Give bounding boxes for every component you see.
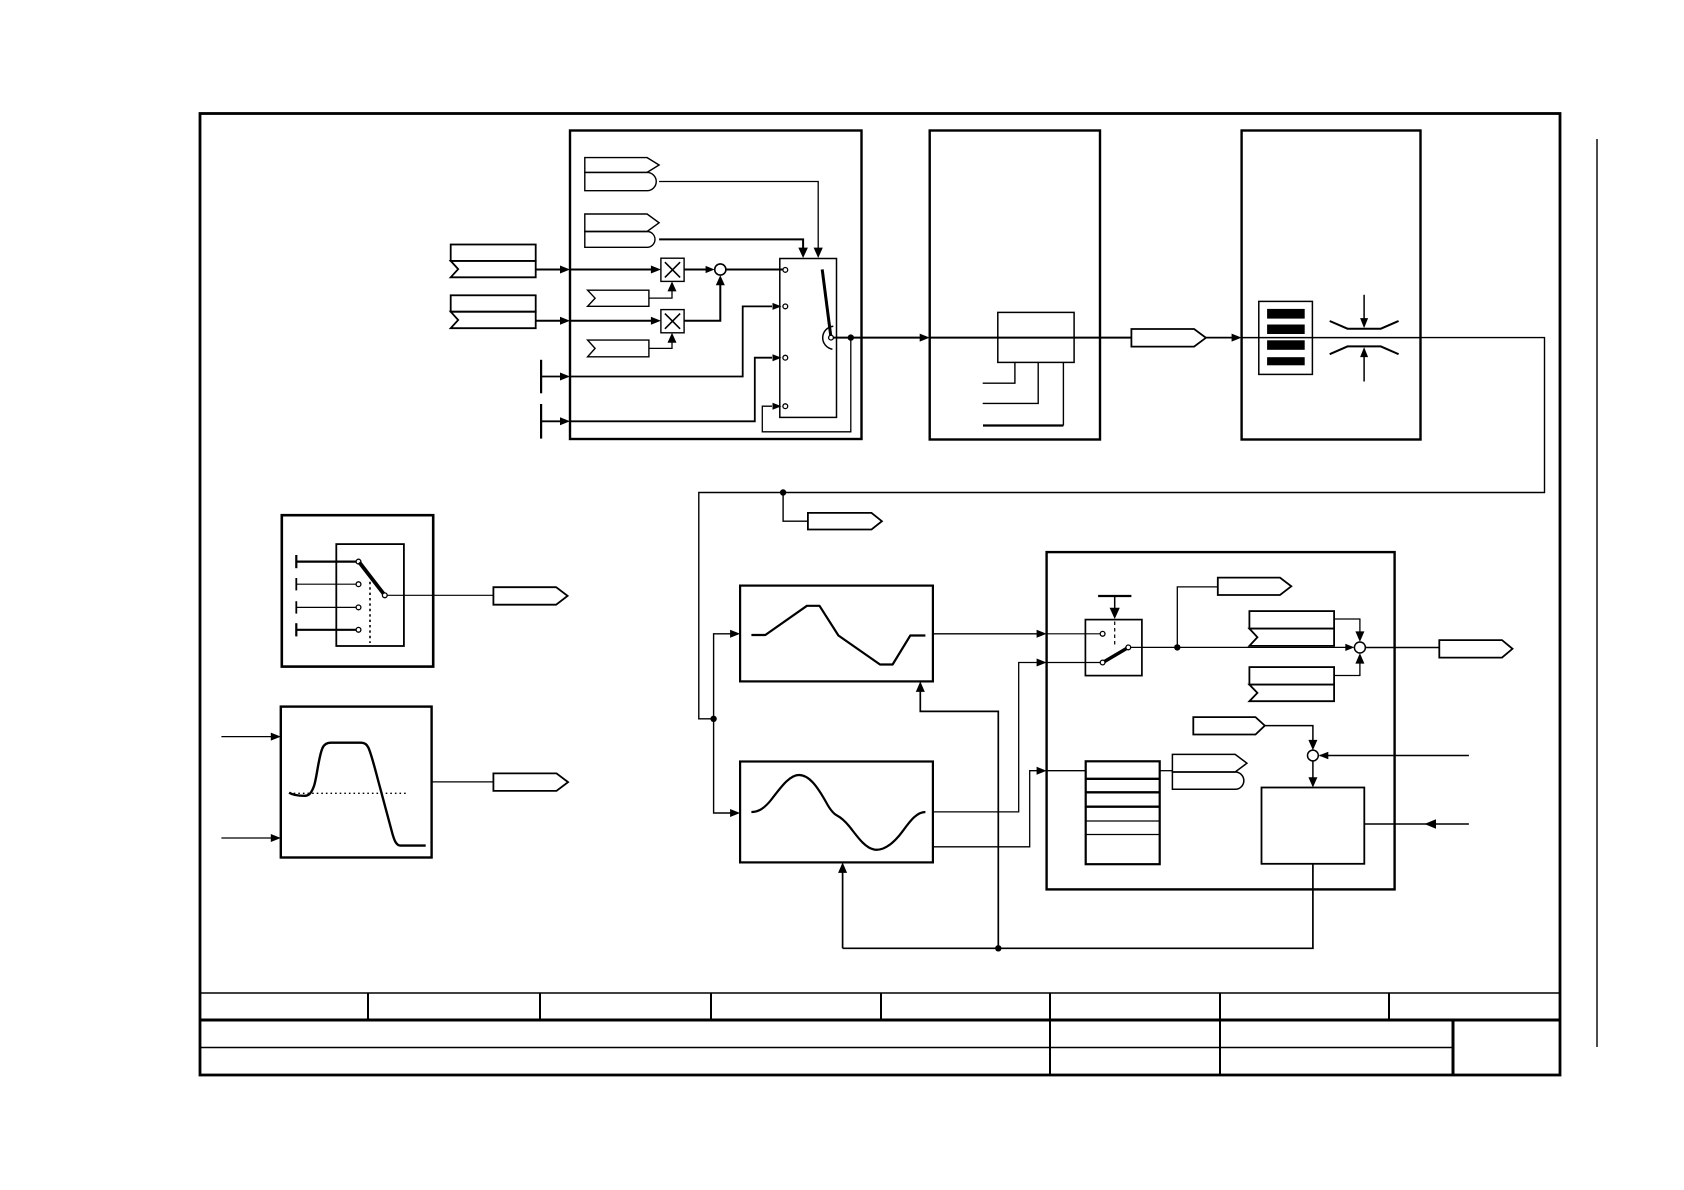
connector pair 2: rounded flag — [585, 232, 655, 248]
arrow up into curve block 1 bottom — [916, 681, 925, 692]
multiplier X1 box — [661, 258, 684, 281]
curve block 2 frame — [740, 762, 933, 863]
arrow up into summing point bottom — [716, 275, 725, 285]
arrow into contact 3 — [773, 354, 782, 361]
scaling parameter flag 2 — [588, 340, 649, 357]
wire: lower flag to summing point 2 — [1265, 726, 1313, 746]
wire: summing point 2 down to correction box — [1312, 761, 1314, 783]
wire: curve block 1 output to block D input 1 — [933, 633, 1038, 635]
arrow into contact 2 — [773, 303, 782, 310]
wire: junction up to status flag — [1177, 587, 1217, 648]
arrow into summing point — [706, 266, 715, 273]
wire: input 2 to contact — [296, 583, 356, 585]
switch contact 1 — [783, 268, 788, 273]
parameter list box — [1086, 761, 1160, 864]
wire: switch D output to summing point 1 — [1130, 646, 1346, 648]
wire: switch output with junction — [833, 337, 921, 339]
wire: branch down to curve block 2 — [714, 719, 732, 813]
arrow up into X1 bottom — [668, 281, 677, 291]
input bar 4 — [295, 623, 297, 636]
title block: header cell divider 7 — [1388, 993, 1390, 1020]
arrow into block F (input 1) — [271, 733, 281, 741]
arrow into X2 — [651, 317, 661, 325]
junction dot on switch output — [848, 334, 854, 340]
multiplier X2 cross — [665, 314, 680, 329]
wire: branch up to curve block 1 — [714, 634, 732, 719]
table bar 1 — [1267, 309, 1305, 319]
arrow into block A edge (input 1) — [560, 266, 570, 274]
arrow into curve block 2 — [730, 809, 740, 817]
wire: lower feedback rising into curve block 1 bottom — [920, 691, 998, 949]
block D frame — [1047, 552, 1395, 889]
stair step line 1 — [983, 362, 1015, 383]
curve block 2 characteristic curve — [751, 775, 925, 850]
limiter lower arrow stem — [1363, 356, 1365, 382]
summing point circle — [715, 264, 726, 275]
arrow down into switch (thin wire) — [814, 248, 823, 258]
junction dot at branch point — [710, 716, 716, 722]
dotted reference line F — [289, 792, 407, 794]
wire: input 3 to switch contact 2 — [570, 306, 772, 376]
block E inner switch box — [336, 544, 404, 646]
wire: input 2 main line into block A — [536, 320, 562, 322]
block E frame — [282, 515, 433, 666]
dotted guide line in switch box — [1114, 622, 1116, 648]
wire: flag 2 to X2 bottom — [649, 341, 672, 348]
wire: parameter box 2 to summing point bottom — [1334, 662, 1360, 676]
wire: flag 1 to X1 bottom — [649, 290, 672, 298]
title block: lower middle row line — [200, 1047, 1453, 1049]
title block: header cell divider 1 — [367, 993, 369, 1020]
wire: input 1 main line into block A — [536, 269, 562, 271]
wire: block C output wrap-around to lower area — [699, 338, 1545, 719]
wire: main line through block B — [930, 337, 1132, 339]
wire: input 4 into block A — [541, 420, 561, 422]
arrow left on correction box input — [1424, 819, 1436, 828]
block B frame — [930, 131, 1100, 440]
arrow into block F (input 2) — [271, 834, 281, 842]
stair step line 2 — [983, 362, 1038, 403]
input parameter box 2: chevron flag part — [451, 312, 536, 329]
connector pair 1: rounded flag — [585, 172, 656, 190]
limiter symbol lower jaw — [1330, 346, 1399, 354]
connector pair 2: pointed flag — [585, 214, 659, 232]
limiter upper arrowhead — [1360, 318, 1368, 328]
wire: hold-value feedback loop — [762, 338, 851, 432]
wire: input 2 from edge to multiplier X2 — [570, 320, 653, 322]
switch common contact — [829, 335, 834, 340]
wire: feedback rising into curve block 2 bottom — [842, 872, 844, 949]
parameter list row line 1 — [1086, 778, 1160, 780]
result connector flag (outside right) — [1439, 640, 1512, 658]
arrow into block B — [920, 334, 930, 342]
wire: parameter box 1 to summing point top — [1334, 619, 1360, 633]
multiplier X1 cross — [665, 262, 680, 277]
arrow down into switch box — [1110, 608, 1120, 619]
forcing T-bar above switch — [1098, 595, 1131, 597]
wire: summing point to switch contact 1 — [726, 269, 783, 271]
parameter list row line 5 — [1086, 834, 1160, 836]
dotted guide line E — [369, 582, 371, 643]
scaling parameter flag 1 — [588, 290, 649, 306]
switch contact 4 — [783, 404, 788, 409]
wire: main line through block C — [1242, 337, 1421, 339]
arrow down into summing point 1 — [1355, 631, 1364, 642]
connector pair 1: pointed flag — [585, 158, 659, 173]
wire: external input into correction box from right — [1364, 823, 1469, 825]
block C frame — [1242, 131, 1421, 440]
offset parameter box 1 chevron flag — [1249, 629, 1334, 646]
title block: header cell divider 2 — [539, 993, 541, 1020]
arrow into X1 — [651, 266, 661, 274]
arrow into block A edge (input 2) — [560, 317, 570, 325]
status connector flag (top) — [1218, 578, 1292, 595]
limiter symbol upper jaw — [1330, 321, 1399, 329]
wire from pair 1 to switch top (thin) — [659, 182, 818, 250]
page-change marker bar (right margin) — [1596, 139, 1598, 1047]
junction dot on switch D output — [1174, 644, 1180, 650]
wire: curve block 2 output 2 to block D input 3 — [933, 771, 1038, 847]
switch D contact 1 — [1100, 631, 1105, 636]
arrow up into curve block 2 bottom — [838, 862, 847, 873]
arrow into block D (input 1) — [1037, 630, 1047, 638]
table bar 2 — [1267, 325, 1305, 335]
arrow into block A edge (input 3) — [560, 373, 570, 381]
title block: header cell divider 3 — [710, 993, 712, 1020]
junction dot on wrap line — [780, 489, 786, 495]
contact E4 — [356, 627, 361, 632]
title block: lower vertical divider 2 — [1219, 1020, 1221, 1075]
selector lever E — [359, 562, 384, 595]
multiplier X2 box — [661, 310, 684, 333]
input bar 2 — [295, 578, 297, 590]
wire: input 3 into block A — [541, 376, 561, 378]
arrow into curve block 1 — [730, 630, 740, 638]
block A frame — [570, 131, 862, 440]
block F output connector flag — [493, 773, 568, 791]
contact E1 — [356, 559, 361, 564]
wire: parameter list to output flag pair — [1160, 770, 1173, 772]
title block: header cell divider 4 — [880, 993, 882, 1020]
wire: correction box bottom feedback to curve blocks — [843, 864, 1313, 949]
arrow into block C — [1232, 334, 1242, 342]
table bar 4 — [1267, 357, 1305, 365]
switch D lever — [1105, 649, 1127, 662]
title block: header cell divider 5 — [1049, 993, 1051, 1020]
offset parameter box 2 — [1249, 667, 1334, 685]
wire: input 3 to contact — [296, 606, 356, 608]
output flag pair: pointed flag — [1172, 754, 1247, 772]
block F frame — [281, 707, 432, 858]
wire: input 4 T-bar terminator — [540, 404, 542, 439]
switch D common contact — [1126, 645, 1131, 650]
title block: lower vertical divider 1 — [1049, 1020, 1051, 1075]
arrow into block D (input 3) — [1037, 767, 1047, 775]
limiter lower arrowhead — [1360, 347, 1368, 357]
wire: input 4 to switch contact 3 — [570, 358, 772, 422]
connector flag under wrap line — [808, 513, 882, 530]
curve block 1 characteristic polyline — [751, 606, 925, 665]
offset parameter box 1 — [1249, 611, 1334, 629]
outer drawing frame — [200, 114, 1560, 1076]
switch contact 3 — [783, 355, 788, 360]
wire: input 1 to contact (thick) — [296, 560, 356, 562]
switch lever — [822, 269, 831, 337]
switch selector box — [780, 259, 837, 418]
stair step line 3 (selected, thick horizontal) — [1062, 362, 1064, 425]
curve block 1 frame — [740, 586, 933, 682]
output flag pair: rounded flag — [1172, 772, 1243, 789]
correction box — [1262, 788, 1365, 864]
stair step line 3 horizontal — [983, 424, 1063, 426]
forcing stem — [1114, 596, 1116, 611]
wire: curve block 2 output 1 to block D input 2 — [933, 663, 1038, 812]
wire: X2 output up to summing point — [684, 285, 720, 321]
input parameter box 1: chevron flag part — [451, 261, 536, 277]
wire: branch down to connector flag — [783, 493, 808, 522]
offset parameter box 2 chevron flag — [1249, 685, 1334, 702]
input parameter box 2 (outside frame, lower) — [451, 295, 536, 311]
speed-limit table box — [1259, 301, 1313, 374]
parameter list row line 4 — [1086, 820, 1160, 822]
wire: input 1 from edge to multiplier X1 — [570, 269, 653, 271]
parameter list row line 3 — [1086, 806, 1160, 808]
arrow down into switch (thick wire) — [798, 248, 808, 258]
wire: flag to block C — [1206, 337, 1234, 339]
arrow into block A edge (input 4) — [560, 417, 570, 425]
switch contact 2 — [783, 304, 788, 309]
wire: block F input 1 — [221, 736, 272, 738]
block B inner function box — [998, 312, 1074, 362]
connector flag between B and C — [1131, 329, 1206, 347]
contact E2 — [356, 582, 361, 587]
block E output connector flag — [493, 587, 567, 605]
lower connector flag in block D — [1193, 717, 1265, 734]
switch lever arc — [823, 326, 834, 349]
wire: block D input 1 to contact — [1047, 633, 1101, 635]
ramp characteristic curve F — [289, 743, 426, 846]
switch D contact 2 — [1100, 660, 1105, 665]
limiter upper arrow stem — [1363, 295, 1365, 320]
wire: X1 output to summing point — [684, 269, 706, 271]
input bar 1 — [295, 555, 297, 568]
arrow into block D (input 2) — [1037, 659, 1047, 667]
title block: header row separator line — [200, 992, 1560, 994]
wire: input 4 to contact (thick) — [296, 629, 356, 631]
wire from pair 2 to switch top (thick) — [659, 239, 803, 249]
parameter list row line 2 — [1086, 791, 1160, 793]
arrow down into correction box — [1308, 777, 1317, 787]
arrow left into summing point 2 — [1319, 752, 1329, 760]
table bar 3 — [1267, 340, 1305, 350]
wire: block D input 2 to contact — [1047, 662, 1101, 664]
wire: block F input 2 — [221, 837, 272, 839]
switch box D — [1085, 620, 1142, 676]
wire: summing point 1 output to result flag — [1365, 647, 1438, 649]
arrow into contact 4 — [773, 403, 782, 410]
title block: header cell divider 6 — [1219, 993, 1221, 1020]
common contact E — [382, 593, 387, 598]
arrow into summing point 1 from left — [1345, 644, 1354, 651]
arrow up into summing point 1 — [1355, 653, 1364, 664]
wire: block F output to flag — [432, 781, 494, 783]
wire: block D input 3 to parameter list — [1047, 770, 1086, 772]
arrow up into X2 bottom — [668, 333, 677, 343]
arrow down into summing point 2 — [1308, 740, 1317, 750]
wire: block E output to flag — [387, 594, 493, 596]
summing point 2 — [1308, 750, 1319, 761]
wire: input 3 T-bar terminator — [540, 360, 542, 394]
input parameter box 1 (outside frame, upper) — [451, 245, 536, 261]
input bar 3 — [295, 601, 297, 613]
wire: external input into summing point 2 from right — [1320, 755, 1469, 757]
title block: thick separator line — [200, 1019, 1560, 1022]
contact E3 — [356, 605, 361, 610]
junction dot on feedback line — [995, 945, 1001, 951]
summing point 1 — [1354, 642, 1365, 653]
title block: page number box divider (thick) — [1452, 1020, 1455, 1075]
